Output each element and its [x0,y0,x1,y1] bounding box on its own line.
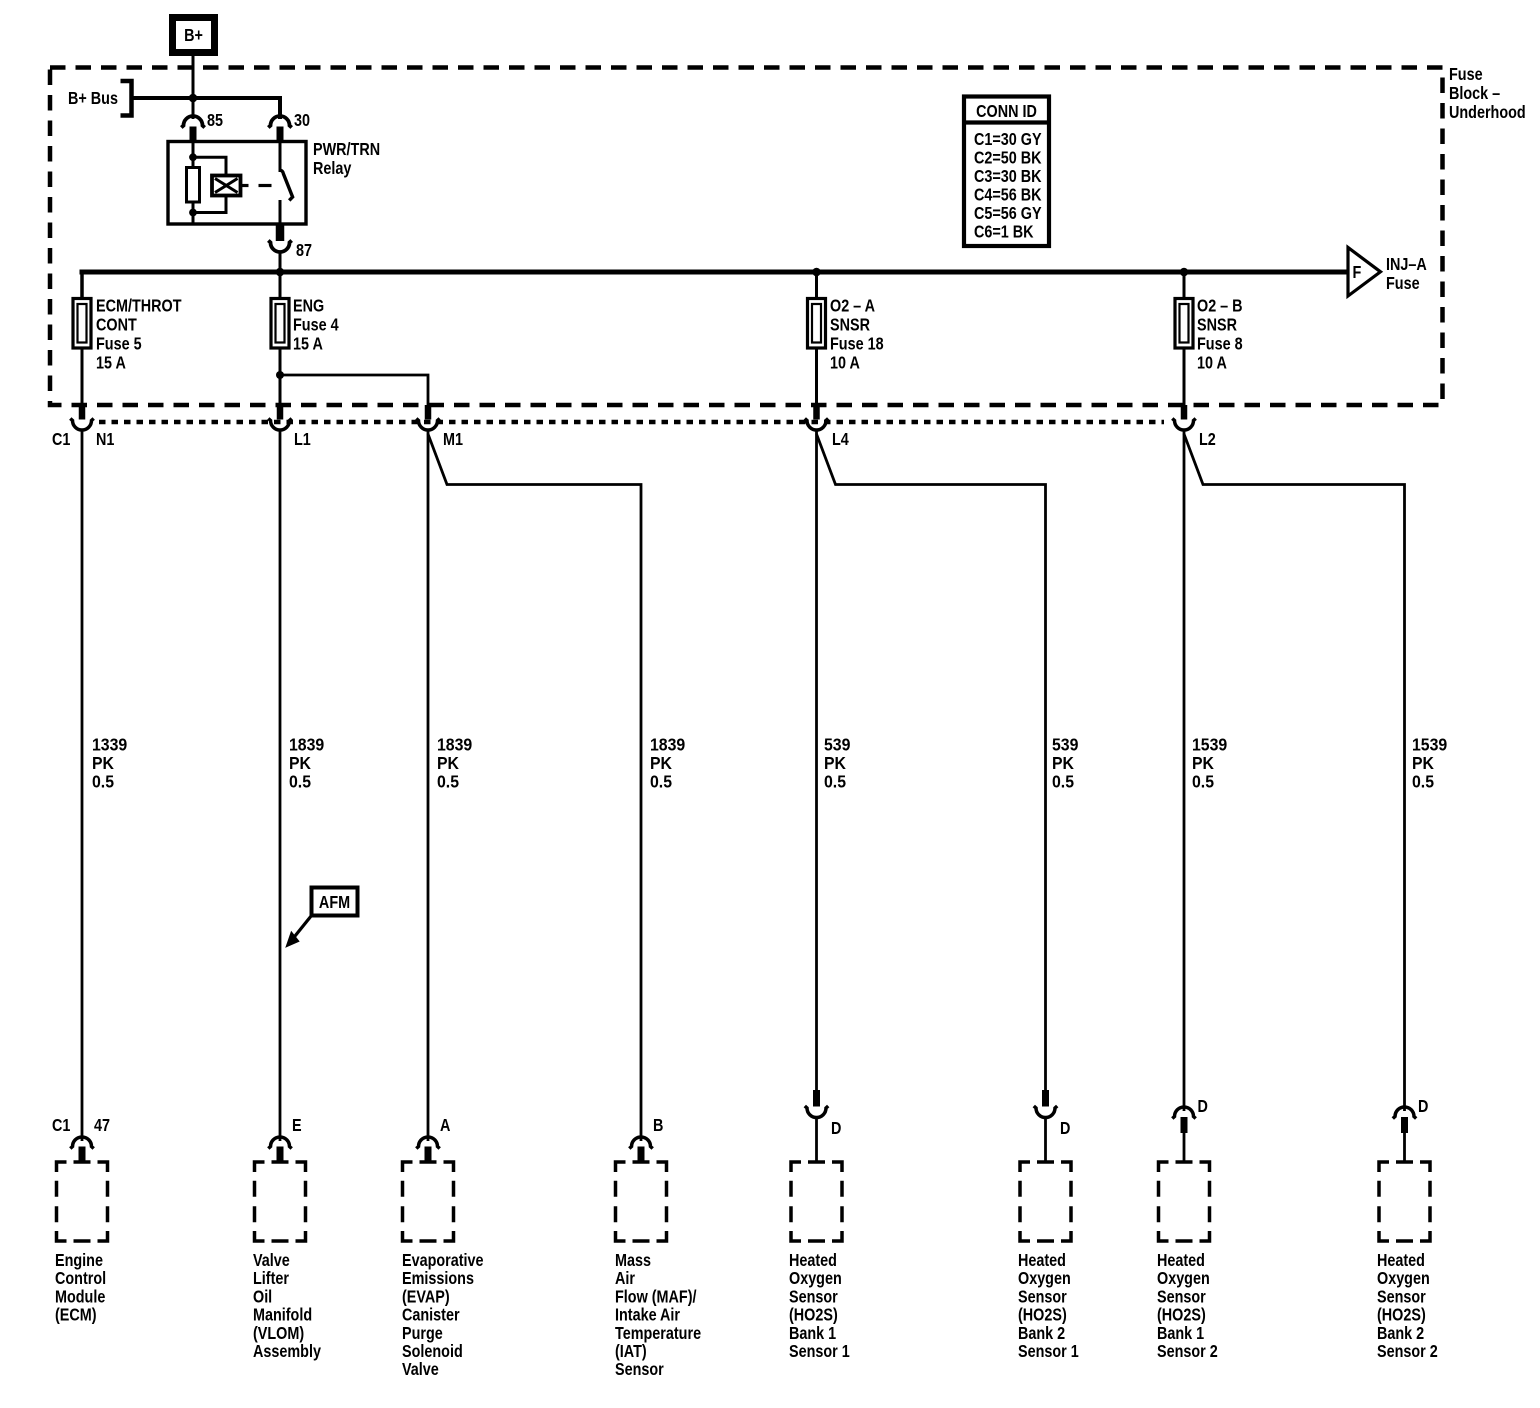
junction dot bus/O2-A fuse [812,268,821,277]
wire bus to ECM/THROT CONT Fuse 5 [81,272,84,300]
junction dot bus/O2-B fuse [1180,268,1189,277]
label Engine Control Module [55,1251,106,1325]
svg-text:Sensor: Sensor [1157,1287,1206,1307]
component box HO2S bank2 sensor2 [1379,1162,1430,1241]
svg-text:Purge: Purge [402,1323,443,1343]
component box EVAP purge solenoid [403,1162,454,1241]
svg-text:1339: 1339 [92,735,127,755]
label HO2S bank1 sensor1 [789,1251,850,1362]
connector terminal C1-47 at component box [52,1116,110,1162]
svg-text:Sensor: Sensor [1377,1287,1426,1307]
svg-text:1539: 1539 [1412,735,1447,755]
svg-text:Intake Air: Intake Air [615,1305,681,1325]
label O2-A SNSR Fuse 18 [830,296,884,373]
wire ENG Fuse 4 to connector row [279,348,282,406]
connector N1 [70,405,114,449]
relay switch lower terminal [279,200,282,224]
svg-text:0.5: 0.5 [1052,772,1074,792]
node B+ Bus label and bracket [68,81,132,116]
junction dot coil bottom [189,209,197,217]
svg-text:Sensor 2: Sensor 2 [1157,1342,1218,1362]
svg-text:Oxygen: Oxygen [1157,1269,1210,1289]
svg-text:(HO2S): (HO2S) [1377,1305,1426,1325]
svg-text:E: E [292,1116,302,1136]
svg-text:Heated: Heated [789,1251,837,1271]
svg-text:O2 – B: O2 – B [1197,296,1243,316]
svg-text:N1: N1 [96,430,114,450]
connector terminal D (pin-down) [1034,1090,1071,1138]
svg-text:C3=30 BK: C3=30 BK [974,167,1042,187]
svg-text:Module: Module [55,1287,105,1307]
svg-text:PK: PK [1192,753,1215,773]
svg-text:(IAT): (IAT) [615,1342,647,1362]
svg-text:PWR/TRN: PWR/TRN [313,140,380,160]
relay coil wire below resistor [192,202,195,224]
wire terminal to HO2S box [1044,1117,1047,1162]
component box HO2S bank1 sensor2 [1159,1162,1210,1241]
svg-text:B+ Bus: B+ Bus [68,89,118,109]
svg-text:SNSR: SNSR [1197,315,1237,335]
svg-text:Air: Air [615,1269,636,1289]
relay coil resistor [187,168,200,203]
svg-text:Oxygen: Oxygen [1377,1269,1430,1289]
svg-text:Canister: Canister [402,1305,460,1325]
svg-text:Temperature: Temperature [615,1323,701,1343]
svg-text:L1: L1 [294,430,311,450]
svg-text:47: 47 [94,1116,110,1136]
wire label 1839 PK 0.5 [437,735,472,792]
wire ECM/THROT CONT Fuse 5 to connector row [81,348,84,406]
svg-text:Bank 1: Bank 1 [789,1323,836,1343]
svg-text:C4=56 BK: C4=56 BK [974,185,1042,205]
svg-text:Flow (MAF)/: Flow (MAF)/ [615,1287,697,1307]
svg-text:0.5: 0.5 [650,772,672,792]
fuse O2-A SNSR Fuse 18 [808,299,826,349]
svg-text:B+: B+ [184,26,203,46]
wire terminal to HO2S box [1183,1133,1186,1162]
svg-text:Bank 1: Bank 1 [1157,1323,1204,1343]
fuse ENG Fuse 4 [271,299,289,349]
svg-text:L4: L4 [832,430,849,450]
component box MAF/IAT sensor [616,1162,667,1241]
label HO2S bank2 sensor2 [1377,1251,1438,1362]
svg-text:PK: PK [1052,753,1075,773]
wire label 539 PK 0.5 [1052,735,1078,792]
svg-text:(ECM): (ECM) [55,1305,97,1325]
relay PWR/TRN box [168,142,306,225]
svg-text:Fuse 5: Fuse 5 [96,334,142,354]
label Fuse Block - Underhood [1449,65,1526,123]
svg-text:D: D [831,1119,842,1139]
wire terminal to HO2S box [815,1117,818,1162]
connector terminal A at component box [416,1116,450,1162]
wire branch L4 to HO2S B2S1 [817,434,1046,1091]
connector L2 [1172,405,1215,449]
svg-text:Oil: Oil [253,1287,272,1307]
connector pin 87 [268,224,312,260]
svg-text:PK: PK [1412,753,1435,773]
CONN ID table [964,97,1049,247]
svg-text:CONT: CONT [96,315,137,335]
component box HO2S bank2 sensor1 [1020,1162,1071,1241]
junction dot bus/87 [276,268,285,277]
svg-text:Fuse 18: Fuse 18 [830,334,884,354]
svg-text:Sensor 2: Sensor 2 [1377,1342,1438,1362]
svg-text:Sensor 1: Sensor 1 [789,1342,850,1362]
wire pin 87 to bus [279,252,282,272]
fuse ECM/THROT CONT Fuse 5 [73,299,91,349]
connector terminal E at component box [268,1116,301,1162]
label EVAP purge solenoid [402,1251,484,1380]
svg-text:Manifold: Manifold [253,1305,312,1325]
svg-text:0.5: 0.5 [824,772,846,792]
svg-text:Fuse: Fuse [1449,65,1483,85]
svg-text:Lifter: Lifter [253,1269,290,1289]
fuse O2-B SNSR Fuse 8 [1175,299,1193,349]
wire 1539 PK to HO2S B1S2 [1183,431,1186,1111]
wire 1839 PK to EVAP [427,431,430,1141]
wire bus down to relay pin 30 [278,96,282,119]
wire 539 PK to HO2S B1S1 [815,431,818,1091]
connector terminal D (socket-down) [1393,1097,1429,1133]
svg-text:M1: M1 [443,430,463,450]
svg-text:0.5: 0.5 [1192,772,1214,792]
svg-text:539: 539 [1052,735,1078,755]
connector pin 30 [268,111,310,142]
svg-text:Heated: Heated [1018,1251,1066,1271]
label MAF/IAT sensor [615,1251,701,1380]
svg-text:(VLOM): (VLOM) [253,1323,304,1343]
component box Engine Control Module [57,1162,108,1241]
component box HO2S bank1 sensor1 [791,1162,842,1241]
svg-text:Assembly: Assembly [253,1342,321,1362]
svg-text:L2: L2 [1199,430,1216,450]
svg-text:0.5: 0.5 [289,772,311,792]
connector L1 [268,405,310,449]
svg-text:B: B [653,1116,664,1136]
svg-text:1839: 1839 [289,735,324,755]
wire label 1539 PK 0.5 [1412,735,1447,792]
connector M1 [416,405,463,449]
svg-text:O2 – A: O2 – A [830,296,875,316]
svg-text:Valve: Valve [253,1251,290,1271]
svg-text:Oxygen: Oxygen [789,1269,842,1289]
connector terminal B at component box [629,1116,663,1162]
wire branch L2 to HO2S B2S2 [1184,434,1405,1111]
label HO2S bank2 sensor1 [1018,1251,1079,1362]
svg-text:INJ–A: INJ–A [1386,255,1427,275]
junction dot ENG fuse branch [276,371,284,379]
svg-text:15 A: 15 A [293,334,323,354]
svg-text:Bank 2: Bank 2 [1377,1323,1424,1343]
wire label 1839 PK 0.5 [289,735,324,792]
label HO2S bank1 sensor2 [1157,1251,1218,1362]
svg-text:C5=56 GY: C5=56 GY [974,204,1042,224]
svg-text:C1: C1 [52,1116,70,1136]
svg-text:0.5: 0.5 [437,772,459,792]
wire bus to O2-A SNSR Fuse 18 [815,272,818,300]
svg-text:(EVAP): (EVAP) [402,1287,450,1307]
svg-text:85: 85 [207,111,223,131]
relay coil parallel loop wire [193,157,226,175]
relay coil winding symbol (boxed X) [212,176,241,196]
svg-text:Relay: Relay [313,159,351,179]
label O2-B SNSR Fuse 8 [1197,296,1243,373]
wire down to relay pin 85 [192,98,195,119]
svg-text:C2=50 BK: C2=50 BK [974,148,1042,168]
wire O2-B SNSR Fuse 8 to connector row [1183,348,1186,406]
AFM callout box [312,888,358,916]
wire label 1839 PK 0.5 [650,735,685,792]
svg-text:Control: Control [55,1269,106,1289]
battery feed B+ [173,18,215,53]
svg-text:A: A [440,1116,451,1136]
svg-text:Sensor: Sensor [1018,1287,1067,1307]
svg-text:(HO2S): (HO2S) [1157,1305,1206,1325]
svg-text:0.5: 0.5 [92,772,114,792]
svg-text:Heated: Heated [1377,1251,1425,1271]
wire label 539 PK 0.5 [824,735,850,792]
svg-text:PK: PK [824,753,847,773]
svg-text:Sensor: Sensor [789,1287,838,1307]
svg-text:AFM: AFM [319,893,350,913]
svg-text:D: D [1060,1119,1071,1139]
component box VLOM assembly [255,1162,306,1241]
connector terminal D (socket-down) [1172,1097,1208,1133]
main feed bus wire [80,270,1349,275]
junction dot coil top [189,153,197,161]
svg-text:87: 87 [296,241,312,261]
svg-text:Engine: Engine [55,1251,103,1271]
svg-text:D: D [1198,1097,1209,1117]
svg-text:ENG: ENG [293,296,324,316]
svg-text:PK: PK [289,753,312,773]
svg-text:SNSR: SNSR [830,315,870,335]
svg-text:C6=1 BK: C6=1 BK [974,222,1034,242]
svg-text:Evaporative: Evaporative [402,1251,484,1271]
wire label 1539 PK 0.5 [1192,735,1227,792]
svg-text:30: 30 [294,111,310,131]
svg-text:C1: C1 [52,430,70,450]
svg-text:539: 539 [824,735,850,755]
svg-text:C1=30 GY: C1=30 GY [974,130,1042,150]
dotted connector row line [99,420,1164,425]
svg-text:Fuse 4: Fuse 4 [293,315,339,335]
svg-text:Solenoid: Solenoid [402,1342,463,1362]
svg-text:Heated: Heated [1157,1251,1205,1271]
svg-text:Sensor 1: Sensor 1 [1018,1342,1079,1362]
relay switch contact from pin 30 [279,142,282,173]
svg-text:(HO2S): (HO2S) [1018,1305,1067,1325]
svg-text:Block –: Block – [1449,84,1500,104]
svg-text:0.5: 0.5 [1412,772,1434,792]
relay coil wire from pin 85 [192,142,195,169]
label VLOM assembly [253,1251,321,1362]
svg-text:Sensor: Sensor [615,1360,664,1380]
wire B+ to B+ Bus [192,53,195,99]
wire label 1339 PK 0.5 [92,735,127,792]
label PWR/TRN Relay [313,140,380,179]
connector pin 85 [181,111,223,142]
svg-text:10 A: 10 A [830,353,860,373]
label ECM/THROT CONT Fuse 5 [96,296,182,373]
wire B+ Bus horizontal [132,96,281,100]
junction dot at B+/bus [189,94,198,103]
AFM arrow [287,916,312,947]
svg-text:F: F [1353,263,1362,283]
label ENG Fuse 4 [293,296,339,354]
svg-text:Mass: Mass [615,1251,651,1271]
svg-text:Emissions: Emissions [402,1269,474,1289]
svg-text:PK: PK [650,753,673,773]
fuse block underhood dashed border [50,68,1443,406]
svg-text:1539: 1539 [1192,735,1227,755]
wire 1339 PK to ECM [81,431,84,1141]
svg-text:(HO2S): (HO2S) [789,1305,838,1325]
wire bus to ENG Fuse 4 [279,272,282,300]
svg-text:Fuse: Fuse [1386,274,1420,294]
svg-text:ECM/THROT: ECM/THROT [96,296,182,316]
svg-text:10 A: 10 A [1197,353,1227,373]
svg-text:D: D [1418,1097,1429,1117]
wire 1839 PK to VLOM [279,431,282,1141]
svg-text:1839: 1839 [650,735,685,755]
svg-text:1839: 1839 [437,735,472,755]
arrow to INJ-A Fuse [1348,248,1381,297]
svg-text:15 A: 15 A [96,353,126,373]
label INJ-A Fuse [1386,255,1427,294]
svg-text:Underhood: Underhood [1449,103,1526,123]
relay switch blade [280,170,293,200]
svg-text:Bank 2: Bank 2 [1018,1323,1065,1343]
svg-text:Oxygen: Oxygen [1018,1269,1071,1289]
wire bus to O2-B SNSR Fuse 8 [1183,272,1186,300]
wire O2-A SNSR Fuse 18 to connector row [815,348,818,406]
svg-text:PK: PK [92,753,115,773]
svg-text:CONN ID: CONN ID [976,102,1037,122]
wire branch M1 to MAF/IAT [428,434,641,1141]
svg-text:Valve: Valve [402,1360,439,1380]
relay actuation dashed link [241,184,249,187]
connector terminal D (pin-down) [805,1090,842,1138]
wire terminal to HO2S box [1403,1133,1406,1162]
wire ENG fuse branch to M1 [280,375,428,406]
svg-text:Fuse 8: Fuse 8 [1197,334,1243,354]
connector L4 [805,405,849,449]
svg-text:PK: PK [437,753,460,773]
